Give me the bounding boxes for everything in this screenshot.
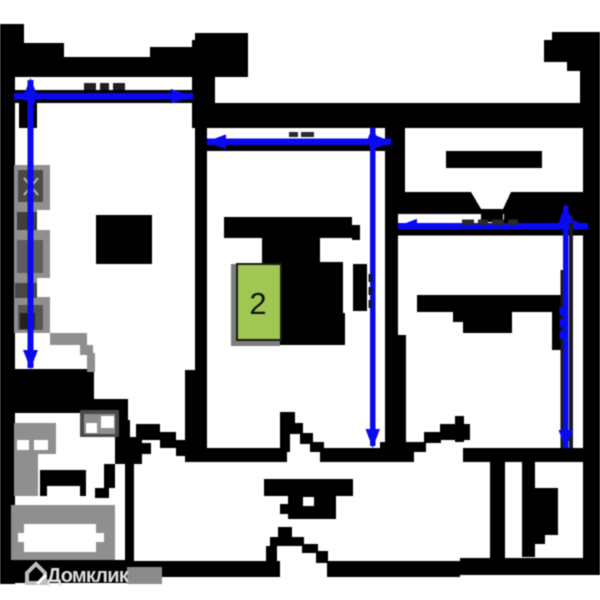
wall right exterior bbox=[583, 128, 600, 564]
wall right strip bbox=[567, 62, 600, 71]
wall divider kitchen-middle vertical bbox=[195, 128, 207, 462]
dimension label middle vertical (blurry text on B4) bbox=[369, 274, 373, 308]
wall bathroom door chunk bbox=[115, 437, 142, 464]
dimension line kitchen horizontal (B1) bbox=[13, 89, 193, 104]
wall kitchen inner top band bbox=[0, 90, 196, 103]
bathroom bathtub bbox=[11, 505, 115, 560]
hallway wardrobe left step bbox=[280, 504, 288, 514]
wall top band middle-right bbox=[197, 103, 600, 128]
wall kitchen top step bbox=[150, 47, 195, 77]
watermark gray patch bbox=[127, 567, 162, 584]
dimension line right horizontal (B5) bbox=[397, 219, 589, 234]
middle room door arc steps bbox=[280, 412, 295, 423]
kitchen door arc step2 bbox=[160, 432, 176, 448]
window bar right room bbox=[446, 151, 542, 168]
dimension line middle vertical (B4) bbox=[366, 126, 381, 448]
dimension label middle (blurry text) bbox=[289, 132, 314, 137]
wall junction kitchen-middle bbox=[192, 77, 215, 128]
watermark house icon bbox=[27, 564, 46, 584]
wall corridor line right bbox=[463, 448, 600, 462]
wall closet middle bbox=[522, 462, 535, 557]
dimension line right vertical (B6) bbox=[569, 215, 573, 448]
wall bathroom right thin bbox=[125, 464, 134, 564]
room label 2 box bbox=[236, 263, 282, 341]
room label 2 shadow bbox=[231, 264, 280, 346]
right room furniture column bbox=[552, 295, 564, 350]
right room furniture hang upper bbox=[453, 312, 512, 322]
middle room door leaf bbox=[280, 412, 290, 452]
middle room furniture block lower bbox=[262, 313, 345, 345]
wall bottom left segment bbox=[113, 561, 280, 577]
wall closet left bbox=[490, 462, 505, 562]
middle room furniture block upper bbox=[262, 262, 343, 313]
hallway wardrobe white notch bbox=[303, 497, 314, 506]
dimension line middle horizontal (B3) bbox=[206, 134, 392, 149]
wall balcony divider band bbox=[396, 192, 583, 214]
wall divider middle-right lower bbox=[385, 335, 406, 442]
kitchen door arc step3 bbox=[176, 440, 192, 456]
right room door arc steps bbox=[440, 424, 470, 440]
kitchen sink X mark bbox=[24, 178, 38, 195]
wall pillar top-right bbox=[552, 32, 600, 62]
wall bathroom door nub bbox=[139, 443, 151, 454]
dimension line kitchen vertical (B2) bbox=[23, 78, 38, 369]
entrance door arc steps bbox=[270, 537, 292, 546]
dimension line middle understrip bbox=[206, 145, 391, 151]
wall divider middle-right upper bbox=[385, 128, 405, 214]
wall kitchen bottom band bbox=[0, 369, 94, 413]
kitchen black cabinet bbox=[96, 215, 152, 264]
bathroom toilet bbox=[14, 423, 56, 496]
wall divider base bbox=[380, 442, 414, 462]
middle room radiator bbox=[353, 264, 367, 311]
wall top-left step bbox=[24, 43, 64, 77]
wall kitchen bottom-right stub bbox=[185, 370, 207, 462]
wall corridor line left bbox=[207, 448, 287, 462]
middle room furniture bar bbox=[224, 217, 352, 238]
hallway wardrobe block bbox=[288, 495, 336, 519]
bathroom door arc step2 bbox=[95, 488, 109, 498]
wall bottom far right segment bbox=[460, 558, 600, 575]
entrance door arc peak bbox=[278, 527, 292, 537]
wall pillar top center bbox=[195, 33, 248, 77]
wall pillar top-right step bbox=[544, 40, 552, 62]
kitchen door arc step1 bbox=[136, 424, 160, 440]
wall bathroom bottom bbox=[0, 560, 133, 583]
dimension label right (blurry text) bbox=[462, 220, 518, 226]
middle room furniture bar step bbox=[352, 225, 360, 240]
dimension label kitchen (blurry text) bbox=[84, 83, 125, 90]
wall kitchen bottom block bbox=[94, 399, 128, 424]
wall balcony V stub bbox=[481, 211, 503, 222]
wall stub below kitchen band bbox=[19, 103, 37, 128]
hallway wardrobe bar bbox=[264, 479, 353, 496]
right room furniture bar bbox=[417, 295, 552, 312]
svg-text:Домклик: Домклик bbox=[47, 565, 130, 587]
wall corridor line middle bbox=[320, 448, 414, 462]
balcony divider V notch white bbox=[471, 192, 511, 209]
right room door leaf vertical bbox=[455, 416, 464, 442]
bathroom washing machine bbox=[80, 410, 119, 437]
wall right upper connector bbox=[580, 71, 600, 104]
kitchen appliance gray column bbox=[14, 165, 95, 372]
wall balcony divider right lower bbox=[504, 214, 583, 223]
wall bathroom right bridge bbox=[117, 420, 130, 440]
right room furniture hang lower bbox=[463, 322, 512, 333]
wall kitchen top band bbox=[0, 57, 150, 77]
wall bottom right segment bbox=[327, 561, 460, 577]
wall left exterior bbox=[0, 24, 15, 584]
kitchen gray L partition bbox=[50, 333, 87, 345]
closet shelf step bbox=[535, 535, 545, 544]
wall divider middle-right mid bbox=[385, 214, 398, 335]
dimension line right understrip bbox=[396, 230, 583, 236]
wall pillar left sliver bbox=[192, 40, 200, 77]
bathroom sink bbox=[40, 470, 86, 496]
closet shelf block bbox=[535, 488, 558, 535]
svg-text:2: 2 bbox=[249, 286, 266, 321]
bathroom door arc step1 bbox=[104, 464, 115, 488]
middle room furniture neck bbox=[262, 238, 320, 262]
wall top-left corner block bbox=[0, 24, 24, 77]
